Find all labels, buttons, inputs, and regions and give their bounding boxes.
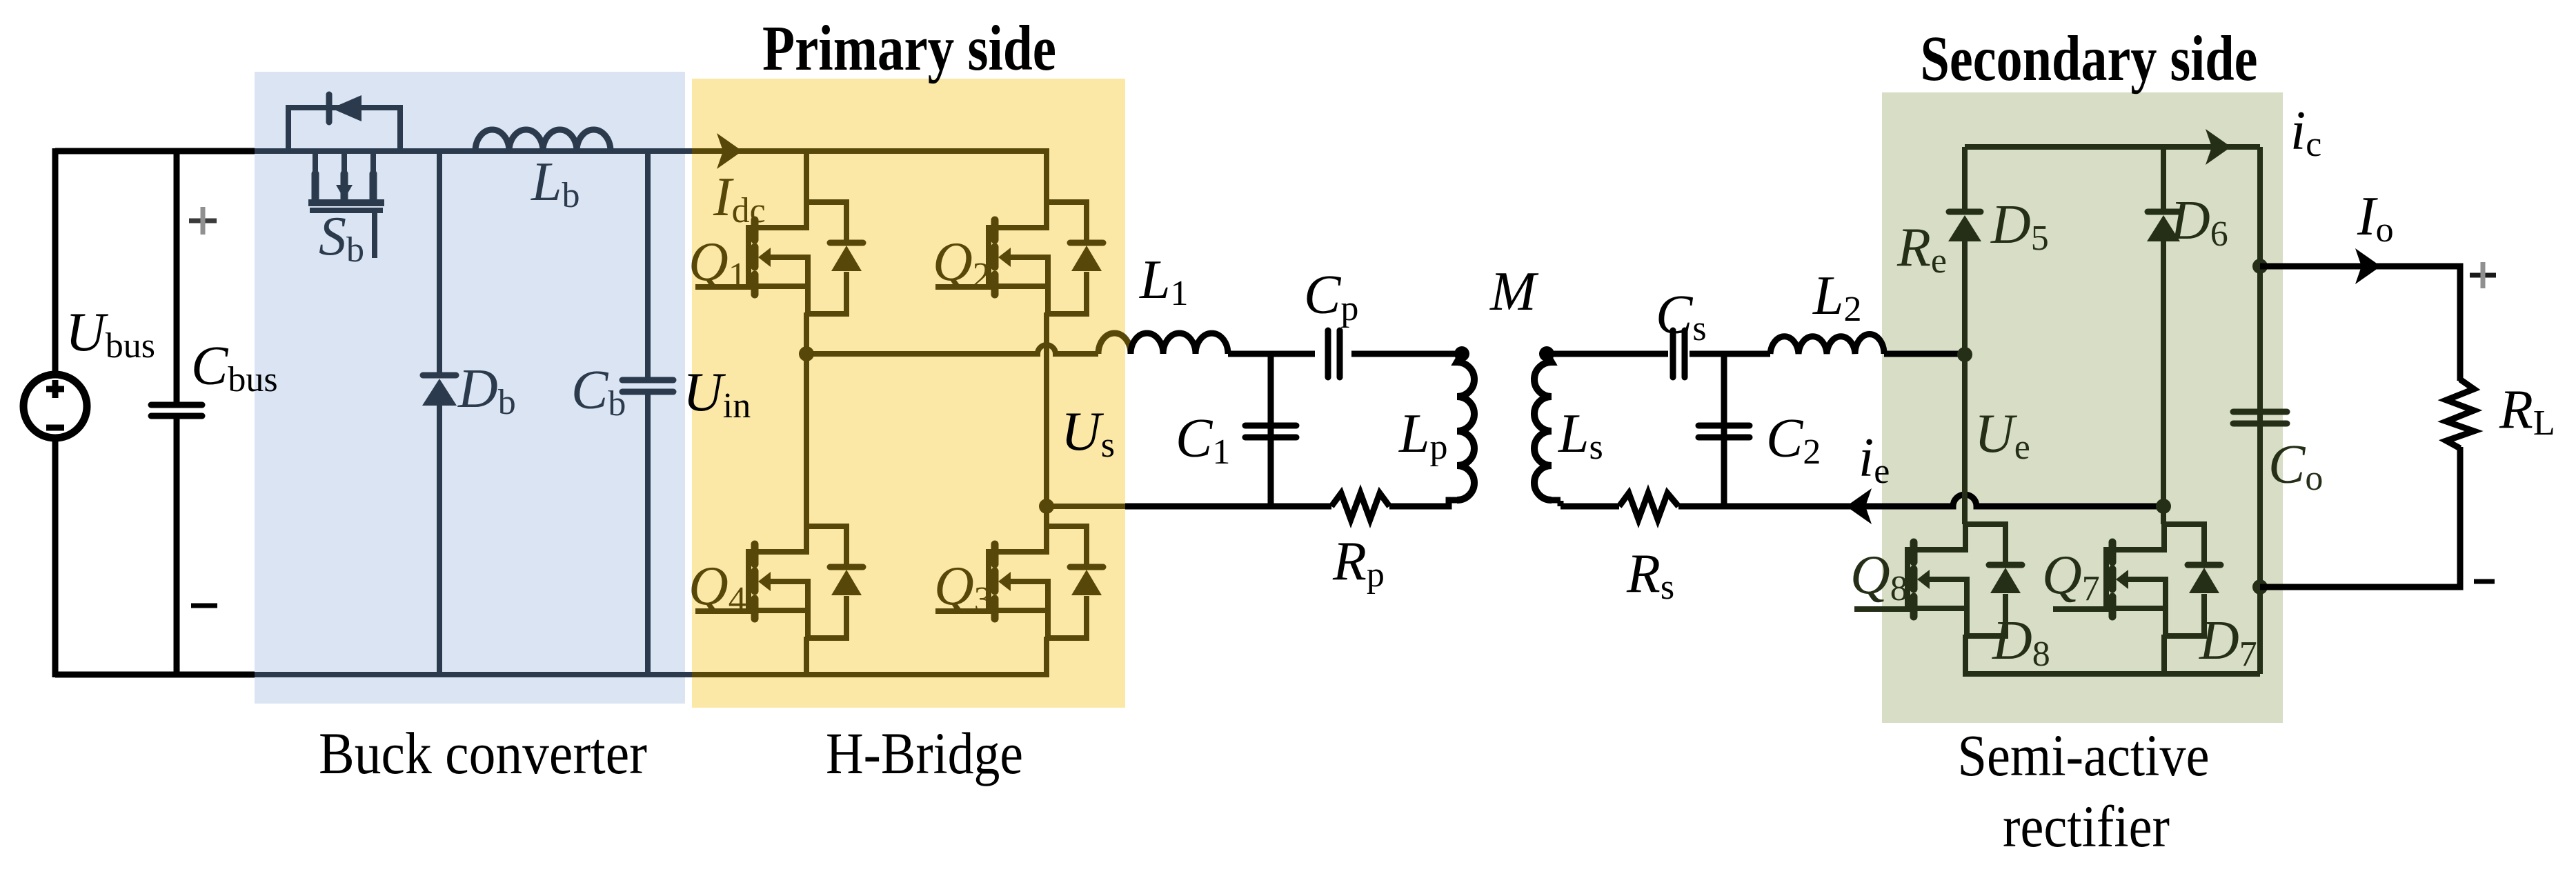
wire D6 leg upper — [2161, 147, 2166, 209]
svg-text:Rs: Rs — [1626, 544, 1674, 607]
wire C2 branch — [1721, 354, 1727, 506]
wire top rail buck — [255, 148, 692, 154]
wire L2 to rectifier junction — [1884, 351, 1965, 357]
switch Sb (MOSFET, horizontal on top rail) — [308, 151, 384, 258]
resistor Rp — [1331, 493, 1389, 519]
arrow Idc — [717, 133, 742, 169]
wire bottom row with ie (jump over Re leg) — [1678, 495, 2163, 506]
wire Cs to C2 tee to L2 — [1690, 351, 1770, 357]
WIRES-RECTIFIER (dark green) — [1965, 147, 2260, 677]
capacitor Cp — [1328, 330, 1340, 377]
capacitor C2 — [1698, 426, 1750, 437]
resistor RL — [2446, 379, 2474, 448]
WIRES-BUCK (navy) — [255, 148, 692, 677]
wire top rail left (black) — [55, 148, 255, 155]
wire Ls dot to Cs — [1547, 351, 1668, 357]
svg-text:C2: C2 — [1766, 408, 1821, 472]
wire Cb branch upper — [645, 148, 651, 380]
capacitor Co — [2233, 412, 2287, 424]
svg-text:Ls: Ls — [1558, 404, 1603, 467]
svg-text:M: M — [1489, 261, 1539, 322]
svg-text:Ubus: Ubus — [66, 302, 155, 366]
wire Cbus branch upper — [174, 148, 180, 402]
wire Cbus branch lower — [174, 419, 180, 677]
secondary side highlight region — [1882, 92, 2283, 723]
label minus output — [2474, 579, 2495, 584]
svg-text:Secondary side: Secondary side — [1921, 23, 2258, 94]
wire left branch upper — [52, 148, 59, 375]
wire Q7 leg bottom — [2161, 635, 2167, 677]
arrow ic — [2206, 129, 2231, 165]
wire D5 leg upper — [1962, 147, 1968, 209]
wire Q8 leg bottom — [1963, 635, 1968, 677]
svg-text:Co: Co — [2268, 435, 2323, 498]
svg-text:L1: L1 — [1139, 250, 1189, 313]
wire D5 leg middle (Ue) — [1962, 241, 1968, 524]
wire top rail H-bridge — [692, 148, 1047, 154]
node output- junction dot — [2252, 579, 2268, 595]
WIRES-TANK-PRIMARY (black) — [1125, 354, 1462, 506]
wire Db branch lower — [437, 405, 442, 677]
inductor Lb — [475, 130, 611, 151]
svg-text:Lp: Lp — [1398, 404, 1448, 467]
primary side highlight region — [692, 79, 1125, 708]
wire right leg top — [1044, 148, 1049, 202]
svg-text:Rp: Rp — [1332, 531, 1385, 595]
wire Cp to Lp dot — [1351, 351, 1462, 357]
transistor Q2 — [935, 202, 1103, 314]
wire bridge output A (with jump over right leg) — [806, 345, 1098, 354]
svg-text:C1: C1 — [1176, 408, 1230, 472]
wire left leg middle — [804, 312, 809, 526]
wire left branch lower — [52, 438, 59, 677]
node output+ junction dot — [2252, 259, 2268, 274]
svg-text:Io: Io — [2357, 186, 2394, 250]
capacitor Cbus — [151, 405, 202, 416]
wire Db branch upper — [437, 148, 442, 373]
node Ls dot — [1539, 346, 1554, 361]
label minus Cbus — [191, 604, 217, 608]
svg-text:ic: ic — [2290, 101, 2321, 164]
diode D6 — [2147, 212, 2180, 241]
svg-text:Buck converter: Buck converter — [319, 720, 647, 786]
label plus Cbus — [189, 207, 217, 235]
arrow Io — [2355, 248, 2381, 284]
inductor L2 — [1770, 334, 1884, 354]
transistor Q8 — [1854, 524, 2022, 636]
arrow ie — [1846, 488, 1872, 524]
wire Rp to Lp elbow — [1389, 500, 1457, 506]
label plus output — [2470, 262, 2496, 288]
svg-text:RL: RL — [2499, 379, 2555, 443]
wire Cb branch lower — [645, 392, 651, 677]
WIRES-HBRIDGE (olive) — [692, 148, 1125, 677]
wire bottom row primary — [1125, 504, 1331, 510]
svg-text:Cs: Cs — [1656, 285, 1707, 348]
wire right leg middle — [1044, 312, 1049, 526]
capacitor Cs — [1673, 330, 1685, 377]
diode D5 — [1948, 212, 1981, 241]
node L2-rectifier junction dot — [1957, 347, 1972, 362]
svg-text:Cp: Cp — [1304, 265, 1358, 328]
diode of Sb (antiparallel) — [288, 94, 400, 154]
wire right leg bottom — [1044, 637, 1049, 677]
svg-text:Primary side: Primary side — [762, 13, 1056, 84]
node Us junction dot — [1039, 499, 1054, 514]
wire C1 branch — [1268, 354, 1274, 506]
wire Us node to tank — [1047, 504, 1125, 509]
node Lp dot — [1454, 346, 1469, 361]
wire bottom row secondary Ls to Rs — [1552, 500, 1619, 506]
inductor Ls — [1534, 354, 1552, 500]
wire output leg — [2257, 147, 2263, 674]
transistor Q1 — [695, 202, 863, 314]
svg-text:H-Bridge: H-Bridge — [826, 720, 1023, 786]
svg-text:L2: L2 — [1812, 266, 1862, 329]
node ie-rectifier junction dot — [2156, 499, 2171, 514]
wire left leg bottom — [804, 637, 809, 677]
wire D6 leg middle — [2161, 241, 2166, 524]
WIRES-OUTPUT (black) — [2260, 266, 2460, 587]
node A junction dot — [799, 346, 814, 361]
svg-text:rectifier: rectifier — [2003, 793, 2170, 859]
svg-text:Semi-active: Semi-active — [1958, 722, 2210, 788]
wire bottom rail rectifier — [1965, 671, 2260, 677]
buck converter highlight region — [255, 72, 685, 704]
source Ubus (circle symbol) — [23, 375, 87, 438]
capacitor Cb — [622, 380, 673, 392]
capacitor C1 — [1245, 426, 1296, 437]
resistor Rs — [1619, 493, 1678, 519]
inductor Lp — [1457, 354, 1474, 500]
wire bottom rail buck — [255, 672, 692, 677]
WIRES-TANK-SECONDARY (black) — [1547, 354, 2163, 506]
wire top rail rectifier — [1965, 144, 2260, 150]
transistor Q4 — [695, 526, 863, 638]
wire L1 to C1 tee to Cp — [1228, 351, 1315, 357]
wire bottom rail left (black) — [55, 672, 255, 678]
wire left leg top — [804, 151, 809, 202]
WIRES-LEFT — [55, 148, 255, 677]
inductor L1 (first hump olive) — [1098, 333, 1131, 354]
diode Db — [422, 375, 457, 406]
wire bottom rail H-bridge — [692, 672, 1047, 677]
transistor Q3 — [935, 526, 1103, 638]
transistor Q7 — [2053, 524, 2221, 636]
TITLES — [319, 13, 2258, 859]
wire output top — [2260, 266, 2460, 381]
wire output bottom — [2260, 447, 2460, 587]
